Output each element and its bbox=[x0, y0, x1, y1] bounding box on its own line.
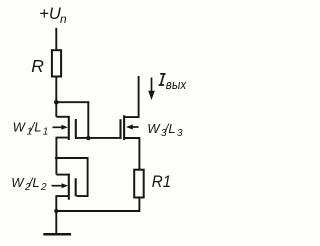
svg-text:W: W bbox=[13, 119, 27, 134]
svg-text:вых: вых bbox=[166, 77, 187, 92]
svg-text:R: R bbox=[31, 56, 44, 76]
svg-text:2: 2 bbox=[40, 182, 47, 193]
svg-text:/L: /L bbox=[164, 121, 176, 136]
svg-text:W: W bbox=[11, 175, 25, 190]
svg-text:W: W bbox=[147, 121, 161, 136]
svg-text:/L: /L bbox=[28, 175, 40, 190]
svg-text:n: n bbox=[60, 12, 67, 26]
svg-text:+U: +U bbox=[39, 5, 61, 23]
svg-text:/L: /L bbox=[30, 119, 42, 134]
svg-text:3: 3 bbox=[177, 128, 183, 139]
svg-text:1: 1 bbox=[43, 127, 49, 138]
svg-text:R1: R1 bbox=[152, 173, 171, 191]
